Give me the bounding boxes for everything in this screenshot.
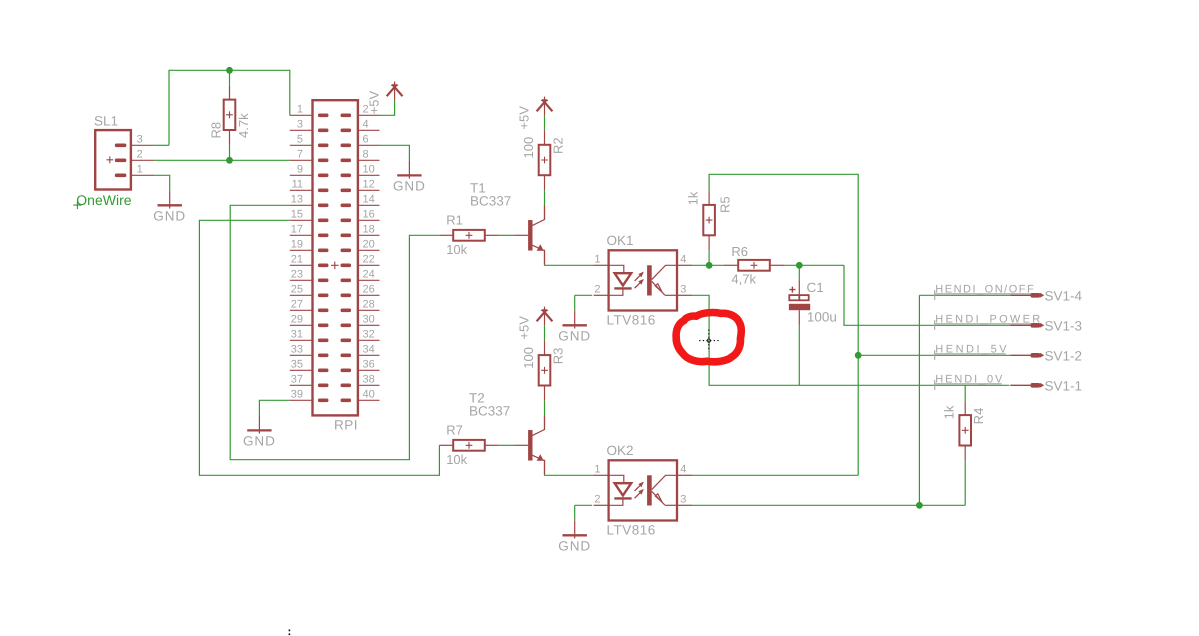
pin 4 stub of OK2 (677, 474, 692, 476)
svg-text:1: 1 (137, 163, 143, 175)
svg-text:33: 33 (291, 344, 303, 356)
svg-text:4: 4 (680, 253, 686, 265)
wire R4 bottom down (964, 460, 966, 505)
svg-text:7: 7 (297, 149, 303, 161)
origin cross of R2 (541, 157, 548, 164)
partial dotted cursor at bottom edge (288, 630, 290, 636)
svg-text:4,7k: 4,7k (731, 271, 756, 286)
pin stub R4 top (964, 401, 966, 415)
svg-text:22: 22 (363, 254, 375, 266)
pin stub R3 bottom (544, 386, 546, 401)
pin 2 stub of OK2 (594, 504, 609, 506)
pin stub R6 right (770, 264, 785, 266)
svg-text:100: 100 (521, 137, 536, 159)
origin cross of R7 (466, 442, 473, 449)
wire OK2 pin2 stub to corner (575, 504, 593, 506)
svg-text:2: 2 (594, 493, 600, 505)
svg-text:6: 6 (363, 134, 369, 146)
pin stub R1 right (485, 234, 499, 236)
svg-text:1k: 1k (941, 405, 956, 419)
svg-text:12: 12 (363, 179, 375, 191)
junction on HENDI_5V at x858 (855, 352, 862, 359)
svg-text:38: 38 (363, 374, 375, 386)
wire R2 bottom to T1 collector (544, 190, 546, 205)
svg-text:GND: GND (243, 433, 276, 448)
wire SL1 pin1 to GND (154, 175, 169, 190)
T2 emitter pin red part (544, 460, 546, 474)
origin cross of R6 (751, 262, 758, 269)
svg-text:20: 20 (363, 239, 375, 251)
svg-text:2: 2 (594, 283, 600, 295)
pin stub R7 left (439, 444, 453, 446)
wire RPI pin13 to R1 (230, 205, 439, 459)
svg-text:GND: GND (558, 328, 591, 343)
svg-text:17: 17 (291, 224, 303, 236)
pin stub R8 bottom (229, 130, 231, 145)
wire junction down to C1 (798, 265, 800, 280)
svg-text:10k: 10k (446, 242, 467, 257)
transistor T1 BC337 (514, 205, 544, 264)
svg-text:25: 25 (291, 284, 303, 296)
pin stub R5 top (708, 190, 710, 205)
origin cross of R1 (466, 232, 473, 239)
svg-text:4.7k: 4.7k (236, 113, 251, 138)
connector pin SV1-1 (1010, 383, 1044, 388)
ground symbol at OK2 pin2 (563, 520, 587, 538)
wire down to OK2 pin4 (857, 355, 859, 475)
T1 emitter pin red part (544, 250, 546, 264)
svg-text:GND: GND (393, 178, 426, 193)
origin cross of SL1 (106, 156, 113, 163)
pin numbers of RPI right column (363, 104, 375, 401)
svg-text:R3: R3 (551, 348, 566, 365)
pin 1 stub of OK1 (594, 264, 609, 266)
svg-text:26: 26 (363, 284, 375, 296)
pin stub R2 bottom (544, 175, 546, 190)
svg-text:30: 30 (363, 314, 375, 326)
origin cross of R5 (706, 217, 713, 224)
resistor R6 4,7k (738, 260, 770, 271)
pin 3 stub of OK2 (677, 504, 692, 506)
svg-text:9: 9 (297, 164, 303, 176)
wire R6 right to corner (785, 264, 844, 266)
junction OK1 pin4 / R5 (706, 262, 713, 269)
junction on OK2 pin3 wire (916, 502, 923, 509)
junction at R8 top on OneWire net (226, 67, 233, 74)
pin 1 stub of OK2 (594, 474, 609, 476)
svg-text:BC337: BC337 (470, 193, 511, 208)
resistor R4 1k (959, 415, 971, 445)
pin stub R3 top (544, 340, 546, 355)
svg-text:100: 100 (521, 347, 536, 369)
svg-text:SV1-2: SV1-2 (1045, 349, 1083, 364)
wire C1 bottom to HENDI_0V (798, 325, 800, 385)
svg-text:GND: GND (153, 208, 186, 223)
origin cross of R8 (226, 111, 233, 118)
svg-text:10: 10 (363, 164, 375, 176)
wire OK2 pin4 to vertical (692, 474, 858, 476)
svg-text:GND: GND (558, 538, 591, 553)
wire HENDI_0V down to R4 top (964, 385, 966, 401)
junction at R8 bottom (226, 157, 233, 164)
svg-text:23: 23 (291, 269, 303, 281)
wire SL1 pin2 to RPI pin7 (154, 159, 289, 161)
svg-text:R1: R1 (446, 213, 463, 228)
wire R5 bottom to junction (708, 250, 710, 265)
connector pin SV1-4 (1010, 293, 1044, 298)
origin cross of R4 (962, 427, 969, 434)
pin stub R5 bottom (708, 235, 710, 250)
wire HENDI_ON/OFF to SV1-4 (919, 294, 1010, 296)
svg-text:R4: R4 (971, 408, 986, 425)
svg-text:21: 21 (291, 254, 303, 266)
svg-text:5: 5 (297, 134, 303, 146)
svg-text:+5V: +5V (516, 106, 531, 130)
net label HENDI_POWER (935, 313, 1043, 330)
wire RPI pin39 to GND (259, 400, 289, 415)
pin stub R2 top (544, 130, 546, 145)
svg-text:R2: R2 (551, 137, 566, 154)
svg-text:LTV816: LTV816 (607, 522, 656, 537)
svg-text:R8: R8 (208, 122, 223, 139)
T1 collector pin red part (544, 205, 546, 219)
wire net OneWire: SL1-3 up over to RPI pin1 (169, 70, 290, 145)
connector pin SV1-3 (1010, 323, 1044, 328)
wire R1 to T1 base (499, 234, 515, 236)
pin stub R7 right (485, 444, 499, 446)
+5V supply symbol at RPI pin2 (387, 82, 403, 101)
svg-text:24: 24 (363, 269, 375, 281)
pin 4 stub of OK1 (677, 264, 692, 266)
ground symbol at RPI pin39 (247, 415, 271, 433)
svg-text:OneWire: OneWire (76, 192, 131, 208)
svg-text:+5V: +5V (516, 316, 531, 340)
svg-text:10k: 10k (446, 452, 467, 467)
svg-text:1: 1 (297, 104, 303, 116)
transistor T2 BC337 (514, 415, 544, 474)
svg-text:15: 15 (291, 209, 303, 221)
wire R8 bottom to junction (229, 145, 231, 160)
svg-text:3: 3 (680, 493, 686, 505)
opto-isolator OK2 LTV816 (609, 460, 677, 520)
svg-text:3: 3 (680, 283, 686, 295)
wire T2 emitter to OK2 pin1 (545, 474, 594, 475)
plus sign of C1 (789, 287, 795, 293)
svg-text:16: 16 (363, 209, 375, 221)
svg-text:35: 35 (291, 359, 303, 371)
connector pin SV1-2 (1010, 353, 1044, 358)
svg-text:1: 1 (594, 463, 600, 475)
wire OK2 pin3 along bottom to R4 (692, 504, 965, 506)
wire down to GND at OK2 (574, 505, 576, 520)
+5V supply symbol above R3 (537, 307, 553, 326)
svg-text:C1: C1 (807, 280, 824, 295)
svg-text:2: 2 (137, 148, 143, 160)
svg-text:R6: R6 (731, 244, 748, 259)
wire HENDI_5V to SV1-2 (858, 354, 1010, 356)
dotted crosshair cursor (699, 330, 719, 352)
pin 2 stub of OK1 (594, 294, 609, 296)
wire RPI pin15 to R7 (199, 220, 439, 475)
pin stub R6 left (723, 264, 738, 266)
wire R7 to T2 base (499, 444, 515, 446)
pin stub R8 top (229, 86, 231, 100)
resistor R7 10k (453, 440, 485, 451)
svg-text:29: 29 (291, 314, 303, 326)
wire OK1 pin3 down then HENDI_0V to SV1-1 (692, 295, 1009, 385)
capacitor C1 100u polarized (789, 280, 810, 325)
connector SL1 (95, 130, 154, 189)
svg-text:SV1-4: SV1-4 (1045, 289, 1083, 304)
wire OK1 pin4 to R6 (692, 264, 723, 266)
resistor R5 1k (703, 205, 715, 235)
wire R3 bottom to T2 collector (544, 400, 546, 415)
resistor R8 4.7k (224, 100, 236, 130)
hand-drawn red annotation circle (676, 313, 741, 362)
svg-text:SL1: SL1 (94, 114, 118, 129)
svg-text:37: 37 (291, 374, 303, 386)
wire R5 top rail over and down (709, 174, 858, 355)
origin cross of RPI (331, 262, 339, 270)
svg-text:28: 28 (363, 299, 375, 311)
wire ON/OFF vertical down to OK2 pin3 net (918, 295, 920, 505)
ground symbol at OK1 pin2 (563, 310, 587, 328)
ground symbol at RPI pin6 (397, 160, 421, 178)
svg-text:OK2: OK2 (607, 443, 634, 458)
wire +5V to R3 top (544, 325, 546, 340)
svg-text:BC337: BC337 (469, 403, 510, 418)
svg-text:SV1-1: SV1-1 (1045, 379, 1083, 394)
svg-text:8: 8 (363, 149, 369, 161)
svg-text:+5V: +5V (367, 90, 382, 114)
ground symbol at SL1 pin1 (158, 190, 182, 208)
svg-text:39: 39 (291, 389, 303, 401)
wire +5V to R2 top (544, 115, 546, 130)
wire R8 top to net (229, 70, 231, 86)
resistor R3 100 (539, 355, 551, 385)
svg-text:40: 40 (363, 389, 375, 401)
svg-text:100u: 100u (807, 309, 837, 324)
wire HENDI_POWER to SV1-3 (844, 265, 1010, 325)
svg-text:1: 1 (594, 253, 600, 265)
svg-text:3: 3 (297, 119, 303, 131)
wire RPI pin6 to GND (380, 145, 410, 160)
wire OK1 pin2 to GND corner (575, 294, 593, 296)
svg-text:32: 32 (363, 329, 375, 341)
pin stub R1 left (439, 234, 453, 236)
T2 collector pin red part (544, 415, 546, 429)
svg-text:OK1: OK1 (607, 233, 634, 248)
svg-text:18: 18 (363, 224, 375, 236)
svg-text:36: 36 (363, 359, 375, 371)
pin 3 stub of OK1 (677, 294, 692, 296)
net label HENDI_5V (935, 343, 1009, 360)
pin numbers of RPI left column (291, 104, 303, 401)
resistor R1 10k (453, 230, 485, 241)
svg-text:31: 31 (291, 329, 303, 341)
net label OneWire (73, 192, 131, 209)
svg-text:13: 13 (291, 194, 303, 206)
svg-text:RPI: RPI (334, 418, 358, 433)
origin cross of R3 (541, 367, 548, 374)
+5V supply symbol above R2 (537, 97, 553, 116)
wire T1 emitter to OK1 pin1 (545, 264, 594, 265)
svg-text:34: 34 (363, 344, 375, 356)
connector RPI 40-pin header (290, 100, 380, 415)
svg-text:19: 19 (291, 239, 303, 251)
svg-text:1k: 1k (685, 191, 700, 205)
svg-text:R7: R7 (446, 423, 463, 438)
svg-text:27: 27 (291, 299, 303, 311)
svg-text:14: 14 (363, 194, 375, 206)
svg-text:11: 11 (292, 179, 303, 191)
opto-isolator OK1 LTV816 (609, 250, 677, 310)
wire RPI pin2 to +5V (380, 100, 395, 115)
svg-text:LTV816: LTV816 (607, 312, 656, 327)
wire SL1 pin3 to vertical (154, 144, 169, 146)
wire down to GND at OK1 (574, 295, 576, 310)
resistor R2 100 (539, 145, 551, 175)
junction at C1 top (796, 262, 803, 269)
net label HENDI_0V (935, 373, 1005, 390)
svg-text:4: 4 (363, 119, 369, 131)
net label HENDI_ON/OFF (935, 283, 1042, 300)
svg-text:SV1-3: SV1-3 (1045, 319, 1083, 334)
pin stub R4 bottom (964, 446, 966, 461)
svg-text:3: 3 (137, 133, 143, 145)
svg-text:R5: R5 (717, 196, 732, 213)
svg-text:4: 4 (680, 463, 686, 475)
